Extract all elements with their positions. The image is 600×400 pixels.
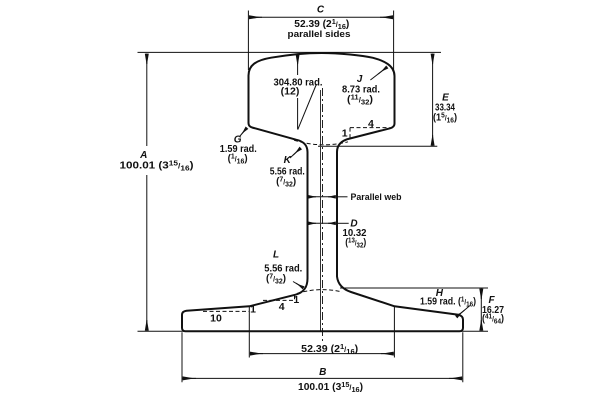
svg-text:1: 1 <box>342 128 348 140</box>
svg-text:(15/16): (15/16) <box>433 111 457 125</box>
svg-text:B: B <box>319 367 326 378</box>
svg-text:C: C <box>317 5 325 16</box>
svg-text:4: 4 <box>279 301 285 313</box>
svg-text:1: 1 <box>250 303 256 315</box>
svg-text:(12): (12) <box>281 86 300 98</box>
svg-text:parallel sides: parallel sides <box>288 29 351 39</box>
svg-text:L: L <box>273 250 279 261</box>
svg-text:4: 4 <box>368 118 374 130</box>
svg-text:5.56 rad.: 5.56 rad. <box>270 165 305 177</box>
svg-text:10: 10 <box>210 312 222 324</box>
svg-text:Parallel web: Parallel web <box>351 192 402 202</box>
svg-text:1.59 rad.: 1.59 rad. <box>220 143 257 155</box>
svg-text:1: 1 <box>293 294 299 306</box>
